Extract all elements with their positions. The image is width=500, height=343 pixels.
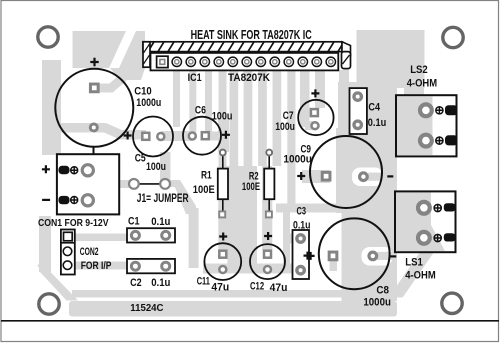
wire: LS1 diagonal <box>389 252 434 297</box>
svg-text:LS1: LS1 <box>405 256 423 268</box>
svg-text:47u: 47u <box>211 282 229 294</box>
svg-text:C8: C8 <box>376 284 389 296</box>
svg-text:0.1u: 0.1u <box>151 216 170 228</box>
svg-text:11524C: 11524C <box>130 303 163 314</box>
wire: pin12 bar to C4 <box>339 70 349 86</box>
wire: C10 square pad trace <box>99 76 125 88</box>
wire: LS2 feed <box>404 86 424 98</box>
wire: C6 square pad trace <box>210 132 229 141</box>
wire: R1 column to C11 <box>218 166 228 250</box>
wire: pour inside LS1 <box>396 193 431 252</box>
wire C10 to CON1 <box>93 147 95 155</box>
wire: diagonal to bottom band <box>40 272 78 301</box>
wire: CON2 to C2 <box>74 262 127 270</box>
op-amp IC1 body <box>151 53 339 71</box>
wire: C8 square pad stub <box>330 260 338 271</box>
wire: C10 to C5 link <box>93 128 146 135</box>
wire: IC pin bars <box>173 70 180 127</box>
heatsink right 3d end <box>342 42 351 55</box>
IC pins <box>172 57 335 66</box>
svg-text:CON1 FOR 9-12V: CON1 FOR 9-12V <box>38 218 109 229</box>
svg-text:100E: 100E <box>193 184 215 196</box>
svg-text:CON2: CON2 <box>80 246 99 258</box>
heatsink top bar <box>143 42 342 52</box>
wire: bottom band A <box>72 290 408 298</box>
wire: top right block <box>357 30 425 88</box>
wire: white channel in block <box>109 31 136 68</box>
svg-text:1000u: 1000u <box>363 297 391 309</box>
wire: J1 right trace <box>165 180 177 187</box>
wire: C10 ring pad trace to left bar <box>51 123 91 133</box>
svg-text:C10: C10 <box>134 86 152 98</box>
hole bottom-left <box>39 294 59 314</box>
heatsink left tab <box>143 42 150 67</box>
wire: gray right of C10 top <box>110 68 145 80</box>
wire: CON1 to J1 <box>119 180 134 188</box>
svg-text:C3: C3 <box>297 206 307 218</box>
svg-text:C12: C12 <box>250 280 264 292</box>
svg-text:HEAT SINK FOR TA8207K IC: HEAT SINK FOR TA8207K IC <box>191 27 313 42</box>
wire: bottom band B <box>69 301 397 317</box>
svg-text:1000u: 1000u <box>136 97 161 109</box>
svg-text:IC1: IC1 <box>188 72 202 84</box>
wire: left vertical bar to CON1 <box>42 60 61 155</box>
svg-text:4-OHM: 4-OHM <box>407 77 437 89</box>
svg-text:C6: C6 <box>195 105 206 117</box>
hole bottom-right <box>442 293 462 313</box>
wire: C9 pad row left <box>302 170 330 183</box>
wire: block between R1 and R2 <box>227 166 257 264</box>
svg-text:0.1u: 0.1u <box>151 277 170 289</box>
wire: pour inside LS2 <box>397 97 433 156</box>
wire: C9 ring clearance <box>352 168 383 187</box>
svg-text:0.1u: 0.1u <box>293 220 311 232</box>
svg-text:47u: 47u <box>270 282 288 294</box>
svg-text:TA8207K: TA8207K <box>228 72 270 84</box>
wire: right pour <box>336 82 397 301</box>
wire: vertical feed to C3 <box>283 207 290 268</box>
wire: elbow to C3 top pad <box>286 234 301 244</box>
svg-text:4-OHM: 4-OHM <box>405 269 435 281</box>
svg-text:100u: 100u <box>212 111 233 123</box>
svg-text:C11: C11 <box>197 275 210 287</box>
svg-text:100u: 100u <box>146 161 166 173</box>
wire: left strip below CON1 <box>39 216 51 272</box>
svg-text:1000u: 1000u <box>283 153 312 165</box>
svg-text:100u: 100u <box>275 121 295 133</box>
svg-text:LS2: LS2 <box>410 64 428 76</box>
svg-text:C2: C2 <box>130 277 142 289</box>
heatsink right tab <box>342 52 351 69</box>
wire: C8 ring stripe <box>377 252 397 260</box>
wire: C8 ring clearance <box>362 247 393 266</box>
svg-text:J1= JUMPER: J1= JUMPER <box>137 191 189 205</box>
wire: CON2 to C1 <box>74 234 127 242</box>
wire: horizontal band below C9 <box>276 204 336 213</box>
svg-text:C5: C5 <box>135 153 146 165</box>
svg-text:R1: R1 <box>201 170 212 182</box>
svg-text:FOR I/P: FOR I/P <box>81 260 112 272</box>
wire: block above C10 <box>73 31 146 68</box>
wire: C6 to R1 <box>218 118 229 152</box>
svg-text:C4: C4 <box>368 102 380 114</box>
svg-text:100E: 100E <box>242 181 260 193</box>
wire: thin diagonal <box>38 265 67 292</box>
wire: ground band through C11 C12 to C3 <box>203 264 301 274</box>
pin 1 square pad <box>157 56 168 67</box>
wire: C5-C6 link <box>161 131 192 141</box>
hole top-left <box>38 27 58 47</box>
wire: pin10 bar to C7 <box>300 70 310 127</box>
wire: pin11 bar to C7 square pad <box>315 70 325 108</box>
hole top-right <box>443 27 463 47</box>
board bottom edge <box>1 320 499 322</box>
wire: C5 to J1 <box>160 152 171 183</box>
svg-text:0.1u: 0.1u <box>368 117 386 129</box>
wire: R2 column to C12 <box>262 166 272 250</box>
wire: C9 ring stripe <box>368 173 392 181</box>
svg-text:C1: C1 <box>128 215 139 227</box>
